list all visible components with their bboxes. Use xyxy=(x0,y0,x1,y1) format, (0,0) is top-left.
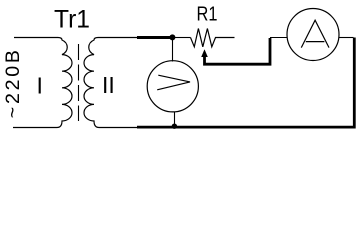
svg-text:R1: R1 xyxy=(197,2,218,25)
svg-text:~220В: ~220В xyxy=(2,47,24,118)
svg-text:II: II xyxy=(102,72,115,98)
svg-text:I: I xyxy=(37,73,43,99)
svg-text:Tr1: Tr1 xyxy=(54,7,90,34)
